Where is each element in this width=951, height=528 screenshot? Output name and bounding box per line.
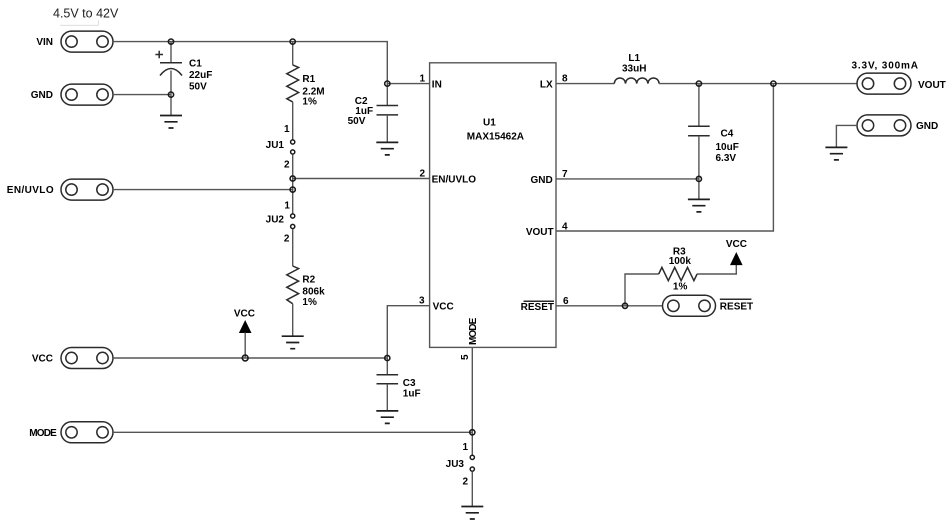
wire EN/UVLO terminal to node (113, 189, 293, 191)
svg-text:3: 3 (419, 296, 425, 307)
node IN/C2 junction (385, 81, 390, 86)
svg-text:IN: IN (432, 79, 442, 90)
node EN lower junction (290, 187, 295, 192)
wire RESET node to R3 (625, 274, 659, 306)
terminal VIN (36, 31, 113, 52)
node VCC/C3 junction (385, 355, 390, 360)
node RESET junction (622, 303, 627, 308)
node MODE junction (470, 430, 475, 435)
svg-text:RESET: RESET (521, 302, 554, 313)
svg-text:MODE: MODE (468, 317, 479, 345)
pin 2 EN/UVLO (419, 169, 476, 186)
svg-text:VOUT: VOUT (526, 227, 554, 238)
wire IC GND pin 7 to C4 node (556, 178, 699, 180)
node VIN/C1 junction (168, 39, 173, 44)
wire JU3 to ground (471, 472, 473, 507)
wire GND terminal stub (836, 125, 857, 147)
svg-text:1%: 1% (302, 297, 317, 308)
capacitor C1 (155, 42, 212, 95)
svg-text:1%: 1% (673, 282, 688, 293)
svg-text:4.5V to 42V: 4.5V to 42V (53, 7, 119, 21)
svg-text:50V: 50V (348, 116, 366, 127)
capacitor C4 (688, 84, 739, 200)
pin 7 GND (530, 169, 568, 186)
svg-text:2: 2 (462, 476, 468, 487)
terminal RESET (663, 295, 754, 316)
terminal MODE (29, 422, 113, 443)
pin 6 RESET (521, 296, 569, 313)
wire LX to L1 (556, 83, 614, 85)
svg-text:GND: GND (530, 175, 552, 186)
wire R2 to ground (292, 304, 294, 336)
ground under C2 (376, 142, 398, 155)
op-amp U1 MAX15462A (IC box) (430, 63, 556, 348)
svg-text:2: 2 (284, 159, 290, 170)
svg-text:1%: 1% (302, 97, 317, 108)
pin 5 MODE (460, 317, 479, 360)
svg-text:L1: L1 (628, 53, 640, 64)
ground under GND terminal (825, 147, 847, 160)
pin 4 VOUT (526, 221, 568, 238)
svg-text:33uH: 33uH (622, 64, 646, 75)
svg-text:1: 1 (462, 442, 468, 453)
wire VCC net (113, 357, 387, 359)
svg-text:C1: C1 (189, 59, 202, 70)
svg-text:1: 1 (284, 124, 290, 135)
svg-text:U1: U1 (483, 117, 496, 128)
svg-text:JU1: JU1 (266, 140, 285, 151)
svg-text:MAX15462A: MAX15462A (467, 131, 524, 142)
svg-text:JU3: JU3 (446, 459, 465, 470)
jumper JU2 (266, 200, 295, 244)
resistor R1 (287, 42, 325, 108)
terminal GND (31, 84, 113, 105)
inductor L1 (614, 53, 659, 84)
node LX/feedback junction (771, 81, 776, 86)
jumper JU1 (266, 124, 295, 170)
svg-text:2: 2 (419, 169, 425, 180)
svg-text:50V: 50V (189, 82, 207, 93)
svg-text:1: 1 (284, 200, 290, 211)
svg-text:VIN: VIN (36, 37, 53, 48)
svg-text:1uF: 1uF (403, 388, 421, 399)
svg-text:6.3V: 6.3V (716, 153, 737, 164)
wire EN node to IC pin 2 (293, 178, 430, 180)
wire MODE net (113, 431, 472, 433)
terminal VCC (32, 348, 113, 369)
wire L1 to VOUT terminal (659, 83, 857, 85)
resistor R2 (287, 266, 325, 308)
faint artifact line (60, 20, 98, 25)
node GND7/C4 junction (696, 176, 701, 181)
svg-text:3.3V, 300mA: 3.3V, 300mA (852, 61, 919, 72)
svg-text:2: 2 (284, 234, 290, 245)
svg-text:GND: GND (916, 121, 938, 132)
ground under C4 (688, 199, 710, 212)
node GND/C1 junction (168, 92, 173, 97)
wire VOUT pin 4 feedback (556, 84, 773, 231)
terminal EN/UVLO (7, 179, 113, 200)
svg-text:R1: R1 (302, 74, 315, 85)
pin 1 IN (419, 74, 441, 91)
svg-text:RESET: RESET (720, 302, 753, 313)
svg-text:VCC: VCC (234, 309, 255, 320)
node LX/C4 junction (696, 81, 701, 86)
terminal VOUT (857, 73, 946, 94)
svg-text:100k: 100k (669, 256, 692, 267)
ground under JU3 (461, 507, 483, 520)
svg-text:VOUT: VOUT (918, 80, 946, 91)
svg-text:EN/UVLO: EN/UVLO (432, 175, 477, 186)
ground under C1 (160, 116, 182, 129)
wire C1 to ground (170, 95, 172, 116)
node VIN/R1 junction (290, 39, 295, 44)
capacitor C2 (348, 84, 399, 143)
svg-text:MODE: MODE (29, 428, 57, 439)
svg-text:R2: R2 (302, 275, 315, 286)
resistor R3 (659, 246, 697, 292)
svg-text:1: 1 (419, 74, 425, 85)
svg-text:22uF: 22uF (189, 70, 212, 81)
wire JU2 to R2 (292, 229, 294, 266)
power VCC arrow left (234, 309, 255, 358)
terminal GND output (857, 115, 938, 136)
pin 8 LX (540, 74, 568, 91)
svg-text:C4: C4 (721, 129, 734, 140)
svg-text:VCC: VCC (433, 302, 454, 313)
ground under R2 (282, 336, 304, 349)
svg-text:LX: LX (540, 79, 553, 90)
node EN upper junction (290, 176, 295, 181)
pin 3 VCC (419, 296, 454, 313)
svg-text:EN/UVLO: EN/UVLO (7, 185, 54, 196)
power VCC arrow right (726, 239, 747, 265)
svg-text:GND: GND (31, 90, 53, 101)
svg-text:JU2: JU2 (266, 214, 285, 225)
wire VIN net (113, 42, 430, 84)
svg-text:10uF: 10uF (716, 142, 739, 153)
wire JU1 to JU2 through EN junctions (292, 154, 294, 213)
wire R3 to VCC arrow (697, 265, 736, 274)
capacitor C3 (377, 358, 421, 411)
wire GND terminal to C1 (113, 94, 171, 96)
wire VCC riser to IC pin 3 (387, 306, 429, 358)
jumper JU3 (446, 442, 475, 487)
ground under C3 (376, 411, 398, 424)
svg-text:VCC: VCC (726, 239, 747, 250)
wire R1 to JU1 (292, 102, 294, 140)
svg-text:VCC: VCC (32, 354, 53, 365)
svg-text:5: 5 (460, 354, 471, 360)
wire IC pin 5 to JU3 (471, 347, 473, 455)
node VCC arrow junction (242, 355, 248, 361)
wire RESET pin 6 (556, 305, 663, 307)
svg-text:806k: 806k (302, 286, 325, 297)
